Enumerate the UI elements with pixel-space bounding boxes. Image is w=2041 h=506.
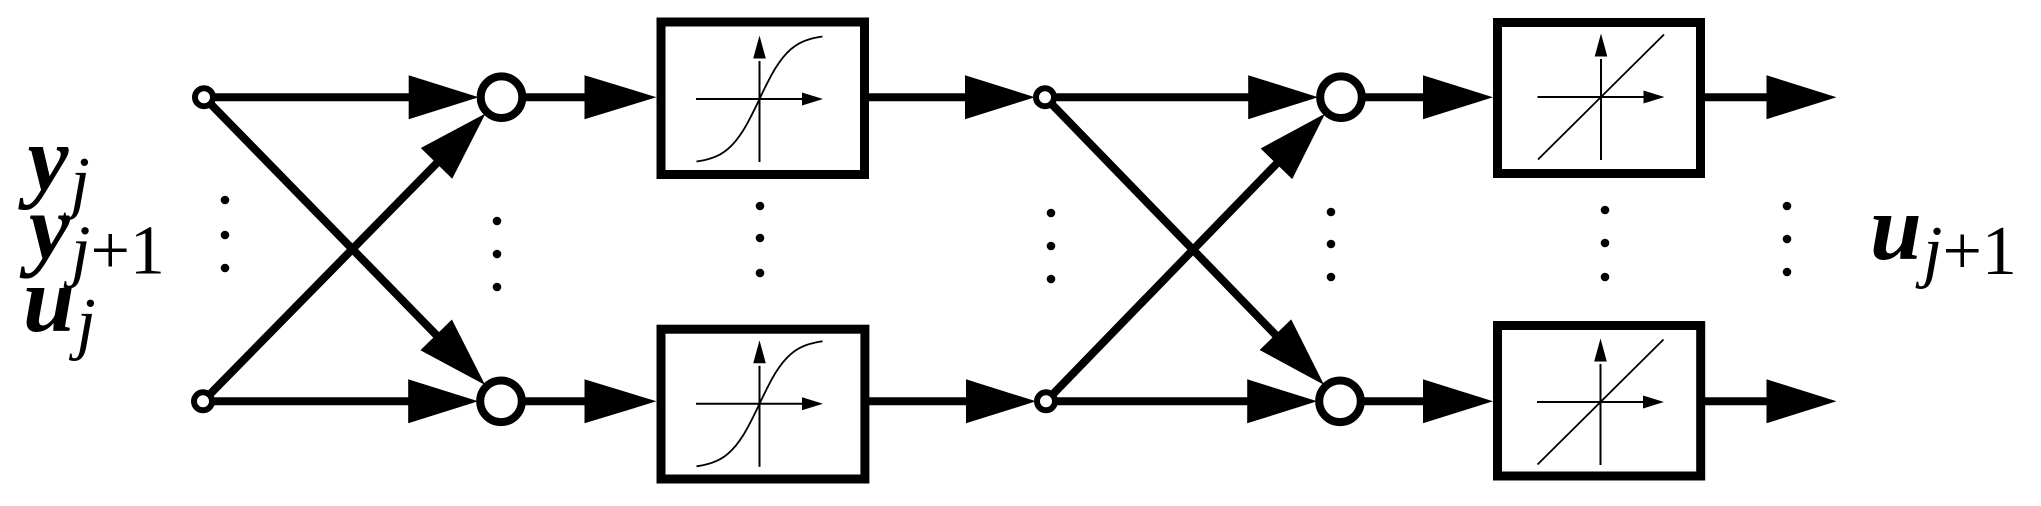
svg-text:u: u xyxy=(1870,177,1922,280)
svg-text:u: u xyxy=(23,249,75,352)
svg-text:j+1: j+1 xyxy=(1915,213,2017,290)
svg-text:j+1: j+1 xyxy=(63,213,165,290)
